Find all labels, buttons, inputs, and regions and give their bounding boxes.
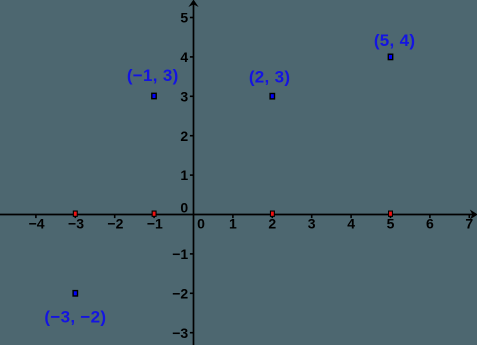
point (2,3) — [270, 94, 274, 99]
svg-text:0: 0 — [180, 200, 188, 216]
x-axis label 2 — [268, 216, 276, 232]
x-axis label 4 — [347, 216, 355, 232]
tick x=2 — [271, 215, 273, 219]
svg-text:0: 0 — [197, 216, 205, 232]
y-axis label -2 — [172, 285, 188, 301]
x-axis label -4 — [29, 216, 45, 232]
svg-text:−2: −2 — [107, 216, 123, 232]
tick x=-3 — [74, 215, 76, 219]
y-axis — [193, 2, 195, 345]
y-axis label 5 — [180, 10, 188, 26]
y-axis label 0 — [180, 200, 188, 216]
tick y=-2 — [190, 292, 194, 294]
tick y=4 — [190, 56, 194, 58]
svg-text:4: 4 — [180, 49, 188, 65]
red point (-3,0) — [73, 211, 77, 216]
y-axis label -1 — [172, 246, 188, 262]
y-axis label -3 — [172, 325, 188, 341]
tick x=6 — [429, 215, 431, 219]
tick x=-4 — [35, 215, 37, 219]
svg-text:5: 5 — [180, 10, 188, 26]
svg-text:7: 7 — [465, 216, 473, 232]
y-axis arrowhead — [188, 0, 198, 7]
y-axis label 2 — [180, 128, 188, 144]
tick x=5 — [390, 215, 392, 219]
y ticks — [190, 18, 194, 333]
tick x=-1 — [153, 215, 155, 219]
x ticks — [36, 215, 469, 219]
x-axis label 1 — [229, 216, 237, 232]
red point (-1,0) — [152, 211, 156, 216]
svg-text:−3: −3 — [172, 325, 188, 341]
tick y=5 — [190, 17, 194, 19]
x-axis arrowhead — [470, 210, 477, 220]
x-axis label 3 — [308, 216, 316, 232]
y-axis label 3 — [180, 88, 188, 104]
svg-text:1: 1 — [229, 216, 237, 232]
svg-text:2: 2 — [268, 216, 276, 232]
x-axis label 0 — [197, 216, 205, 232]
x-axis label -3 — [68, 216, 84, 232]
svg-text:(−3, −2): (−3, −2) — [44, 308, 106, 327]
tick y=3 — [190, 95, 194, 97]
y-axis label 4 — [180, 49, 188, 65]
tick y=2 — [190, 135, 194, 137]
tick x=3 — [311, 215, 313, 219]
tick y=-1 — [190, 253, 194, 255]
svg-text:4: 4 — [347, 216, 355, 232]
tick x=7 — [468, 215, 470, 219]
svg-text:−3: −3 — [68, 216, 84, 232]
red point (5,0) — [389, 211, 393, 216]
svg-text:(5, 4): (5, 4) — [374, 31, 415, 50]
tick y=1 — [190, 174, 194, 176]
point label (5, 4) — [374, 31, 415, 50]
x-axis label 7 — [465, 216, 473, 232]
svg-text:1: 1 — [180, 167, 188, 183]
point (-1,3) — [152, 93, 156, 98]
x-axis label -2 — [107, 216, 123, 232]
point label (-3, -2) — [44, 308, 106, 327]
tick x=1 — [232, 215, 234, 219]
svg-text:(−1, 3): (−1, 3) — [127, 66, 179, 85]
tick x=4 — [350, 215, 352, 219]
x-axis — [0, 214, 475, 216]
x-axis label 5 — [387, 216, 395, 232]
svg-text:−2: −2 — [172, 285, 188, 301]
red point (2,0) — [270, 211, 274, 216]
point (-3,-2) — [73, 291, 77, 296]
svg-text:3: 3 — [308, 216, 316, 232]
x-axis label -1 — [147, 216, 163, 232]
tick y=-3 — [190, 332, 194, 334]
svg-text:−1: −1 — [172, 246, 188, 262]
svg-text:−4: −4 — [29, 216, 45, 232]
x-axis label 6 — [426, 216, 434, 232]
point label (-1, 3) — [127, 66, 179, 85]
svg-text:3: 3 — [180, 88, 188, 104]
svg-text:2: 2 — [180, 128, 188, 144]
tick x=-2 — [114, 215, 116, 219]
svg-text:6: 6 — [426, 216, 434, 232]
y-axis label 1 — [180, 167, 188, 183]
svg-text:5: 5 — [387, 216, 395, 232]
svg-text:−1: −1 — [147, 216, 163, 232]
svg-text:(2, 3): (2, 3) — [249, 68, 290, 87]
point (5,4) — [388, 54, 392, 59]
point label (2, 3) — [249, 68, 290, 87]
